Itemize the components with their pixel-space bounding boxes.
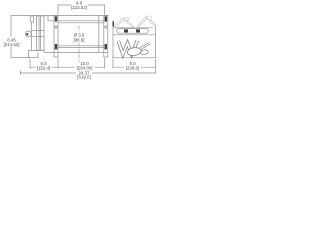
side view top edge xyxy=(115,27,153,29)
side view base line xyxy=(112,57,157,59)
mounting strip rounded bar xyxy=(117,29,149,34)
clutch handle left knob xyxy=(123,17,129,22)
logo W outline gray band xyxy=(118,40,137,54)
drum bottom edge line 2 xyxy=(58,47,104,49)
dimension 8.8 top dim line with end brackets xyxy=(58,5,105,9)
svg-text:[88.9]: [88.9] xyxy=(74,37,85,42)
dim line 9.0 xyxy=(113,66,156,68)
clutch handle right blade xyxy=(137,17,147,27)
left bracket small box xyxy=(30,16,33,22)
strip bolt dark left xyxy=(124,29,128,32)
hook pin dark dot xyxy=(26,33,28,35)
base line of front view xyxy=(44,51,108,53)
logo W inner white xyxy=(118,40,137,54)
extension line 24.37 left end xyxy=(20,71,22,76)
left bracket cross line upper xyxy=(32,30,45,32)
left flange tie-rod nut bottom dark xyxy=(55,44,57,49)
logo swoosh inner white xyxy=(136,43,150,51)
white knockout behind 8.45 text xyxy=(4,37,20,47)
svg-text:[619.0]: [619.0] xyxy=(77,75,90,80)
drum centerline dash-dot xyxy=(78,26,80,62)
extension line side view right bottom dim xyxy=(155,26,157,28)
right flange bolt hole xyxy=(105,26,107,28)
drum top edge line 2 xyxy=(58,22,104,24)
side view mid line under strip xyxy=(113,34,156,36)
clutch handle left blade xyxy=(113,18,124,28)
hook eyelet on left xyxy=(25,31,31,37)
drum right end inner line xyxy=(98,16,100,53)
right flange tie-rod nut top dark xyxy=(105,16,107,21)
drum top edge line 1 xyxy=(48,20,104,22)
logo loop small ellipse xyxy=(140,49,148,55)
svg-text:[214.63]: [214.63] xyxy=(4,42,20,47)
extension line drum right flange bottom dim xyxy=(104,58,106,69)
clutch handle right lower arm xyxy=(150,20,156,26)
strip bolt dark right xyxy=(136,29,140,32)
left foot outline xyxy=(29,51,45,58)
left bracket tall bar 2 xyxy=(41,16,44,51)
side view right edge xyxy=(155,28,157,58)
dim line 10.0 xyxy=(58,66,105,68)
drum bottom edge line 1 xyxy=(58,45,104,47)
logo swoosh gray band xyxy=(136,43,150,51)
extension line drum left flange bottom dim xyxy=(57,58,59,69)
left drum flange bar xyxy=(54,16,58,58)
dimension 8.45 vertical dim line xyxy=(10,16,12,58)
logo loop big ellipse xyxy=(127,47,142,57)
dim line 6.0 xyxy=(30,66,58,68)
svg-text:[223.52]: [223.52] xyxy=(71,5,87,10)
vertical link top of bracket xyxy=(47,16,49,21)
right flange tie-rod nut bottom dark xyxy=(105,44,107,49)
dim line 24.37 xyxy=(21,72,156,74)
left bracket outer edge xyxy=(31,22,33,51)
left bracket tall bar 1 xyxy=(36,16,39,51)
side view left edge xyxy=(112,20,114,58)
extension line side view left bottom dim xyxy=(112,59,114,69)
left flange bolt hole xyxy=(55,26,57,28)
extension line right end of 8.8 xyxy=(104,9,106,15)
bracket to base step xyxy=(43,51,45,53)
right drum flange bar xyxy=(104,16,108,58)
extension line foot left bottom dim xyxy=(29,59,31,69)
extension line left end of 8.8 xyxy=(57,9,59,15)
clutch handle left lower arm xyxy=(127,21,134,27)
left bracket cross line lower xyxy=(32,36,45,38)
svg-text:[152.4]: [152.4] xyxy=(37,65,50,70)
extension line bottom of 8.45 xyxy=(11,57,30,59)
clutch handle right knob xyxy=(146,15,152,20)
side view left edge dark tick xyxy=(113,22,115,27)
left flange tie-rod nut top dark xyxy=(55,16,57,21)
svg-text:[228.6]: [228.6] xyxy=(126,65,139,70)
front view top edge line xyxy=(11,15,109,17)
